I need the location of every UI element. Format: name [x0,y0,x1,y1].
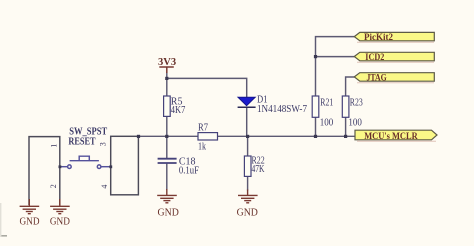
svg-text:GND: GND [158,208,180,219]
svg-text:R21: R21 [320,97,333,108]
svg-text:1k: 1k [198,141,206,152]
svg-text:1N4148SW-7: 1N4148SW-7 [257,104,307,115]
svg-text:3V3: 3V3 [158,57,176,68]
svg-text:100: 100 [320,118,334,129]
svg-text:R7: R7 [198,122,208,133]
svg-text:3: 3 [99,142,108,146]
svg-text:1: 1 [50,144,59,148]
svg-text:100: 100 [348,118,362,129]
svg-text:4K7: 4K7 [171,105,186,116]
svg-text:2: 2 [49,184,58,188]
svg-text:R23: R23 [350,97,363,108]
svg-text:MCU's MCLR: MCU's MCLR [364,131,418,141]
svg-text:0.1uF: 0.1uF [179,166,199,177]
svg-text:GND: GND [50,216,70,227]
svg-text:4: 4 [100,185,109,189]
svg-text:GND: GND [20,216,40,227]
svg-text:JTAG: JTAG [367,73,387,83]
svg-text:PicKit2: PicKit2 [364,32,393,42]
svg-text:GND: GND [237,208,259,219]
svg-text:ICD2: ICD2 [365,52,385,62]
svg-text:47K: 47K [252,164,266,175]
svg-text:RESET: RESET [68,136,95,147]
